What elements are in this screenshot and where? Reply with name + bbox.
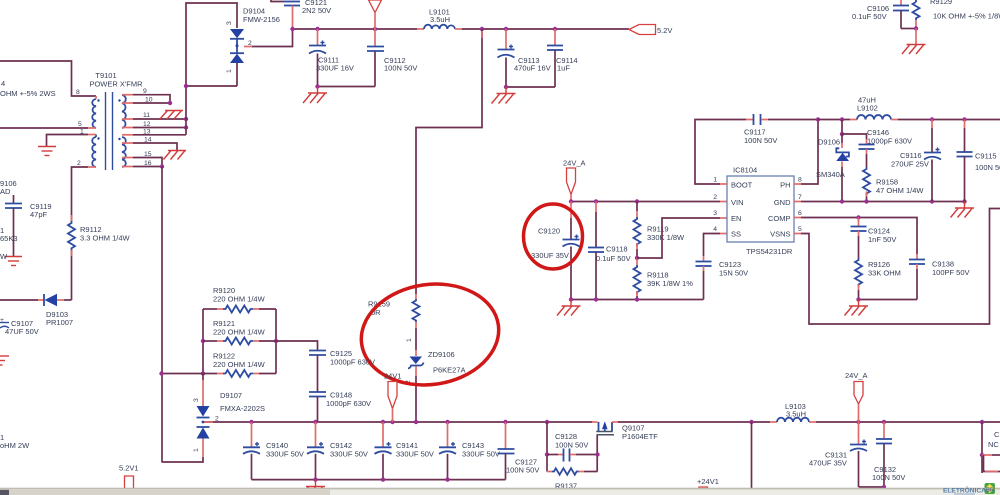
ground wire C9131/C9132 [859,486,885,488]
earth ground (cut, left edge) [0,355,9,357]
capacitor C9127 100N 50V [505,422,507,449]
GND rail from pin 7 [794,201,801,203]
24V bus to right edge [816,421,1000,423]
svg-text:100N 50: 100N 50 [975,163,1000,172]
top bus to right edge [898,119,1000,121]
wire pin 2 down to R9112 [72,167,89,221]
wire R9159 to ZD9106 [415,328,417,350]
svg-text:100N 50V: 100N 50V [872,473,905,482]
chassis ground at pin 14 [168,150,186,152]
wire pin 14 to chassis ground [122,142,133,144]
svg-text:3.3 OHM 1/4W: 3.3 OHM 1/4W [80,234,131,243]
svg-text:GND: GND [774,198,791,207]
svg-text:P1604ETF: P1604ETF [622,432,658,441]
svg-text:1000pF 630V: 1000pF 630V [867,137,912,146]
24V bus after Q9107 [618,421,770,423]
svg-text:330UF 50V: 330UF 50V [330,450,368,459]
svg-text:6: 6 [798,210,802,217]
svg-text:1nF 50V: 1nF 50V [868,235,896,244]
zener diode ZD9106 P6KE27A [410,357,423,365]
svg-text:3.5uH: 3.5uH [430,15,450,24]
svg-text:8: 8 [798,177,802,184]
power arrow connector (cut at top) [369,0,382,13]
svg-text:1: 1 [193,448,200,452]
wire ZD9106 to 24V bus [415,367,417,377]
resistor R9137 [547,471,552,473]
capacitor C9141 330UF 50V [382,422,384,447]
junction pins 9/10 [168,101,172,105]
svg-text:330K 1/8W: 330K 1/8W [647,233,685,242]
svg-text:VSNS: VSNS [770,230,790,239]
capacitor C9119 47pF [13,195,15,203]
Q9107 gate wire [596,435,598,472]
svg-text:SS: SS [731,230,741,239]
wire top-left input to transformer pin 8 [0,61,96,96]
resistor R9118 39K 1/8W 1% [635,256,639,260]
svg-text:100N 50V: 100N 50V [384,64,417,73]
red highlight circle around C9120 [524,204,583,269]
svg-text:39K 1/8W 1%: 39K 1/8W 1% [647,279,693,288]
transformer T9101 core [105,92,107,170]
svg-text:VIN: VIN [731,198,744,207]
svg-text:TPS54231DR: TPS54231DR [746,247,793,256]
capacitor C9128 100N 50V [547,454,558,456]
inductor L9102 47uH [850,119,857,121]
svg-text:2: 2 [77,160,81,167]
svg-text:47pF: 47pF [30,210,48,219]
wire R9112 to D9103 [71,250,73,300]
svg-text:1000pF 630V: 1000pF 630V [326,399,371,408]
svg-text:4: 4 [713,226,717,233]
svg-text:FMW-2156: FMW-2156 [243,15,280,24]
svg-text:D9106: D9106 [818,138,840,147]
capacitor C9116 270UF 25V [931,120,933,129]
capacitor C9120 330UF 35V [570,202,572,219]
svg-text:5: 5 [78,121,82,128]
capacitor C9132 100N 50V [883,422,885,439]
D9104 connection loop (pins 3 and 1 tied to secondary) [186,3,237,135]
wire D9104 pin 2 to 5.2V bus [244,46,252,48]
svg-text:BR: BR [986,488,994,494]
svg-text:C: C [994,430,1000,439]
svg-text:47UF 50V: 47UF 50V [5,327,39,336]
bottom grey toolbar [0,489,1000,495]
wire 5.2V node jog down to 24V protection branch [416,29,482,294]
svg-text:470UF 35V: 470UF 35V [809,459,847,468]
svg-text:1: 1 [713,177,717,184]
wires transformer pins 9,10 tied [122,94,133,96]
earth ground at transformer pin 1 [38,146,56,148]
capacitor C9118 0.1uF 50V [595,202,597,213]
SS wire and capacitor C9123 15N 50V [720,233,727,235]
Q9107 gate network: wire from bus down [546,422,548,472]
svg-text:IC8104: IC8104 [733,166,757,175]
snubber C9146 1000pF 630V [842,134,867,139]
EN net wire [637,218,720,258]
chassis ground below C9113 [505,87,507,94]
resistor R9120 220 OHM 1/4W [203,308,217,310]
svg-text:4: 4 [1,79,5,88]
svg-text:1000pF 630V: 1000pF 630V [330,358,375,367]
diode D9106 SM340A [841,120,843,135]
chassis ground below C9111 [317,87,319,94]
capacitor C9143 330UF 50V [447,422,449,447]
svg-text:P6KE27A: P6KE27A [433,366,466,375]
chassis ground below R9129 [915,29,917,45]
long wire pins 15/16 down to D9107 area [161,167,163,463]
ground wire C9113/C9114 [506,86,555,88]
capacitor C9106 0.1uF 50V (cut at top) [900,0,902,6]
svg-text:330UF 16V: 330UF 16V [316,64,354,73]
resistor R9159 0R [415,294,417,299]
svg-text:R9129: R9129 [930,0,952,6]
capacitor C9112 100N 50V [374,29,376,47]
svg-text:ELETRÔNICA: ELETRÔNICA [943,486,986,495]
svg-text:1: 1 [406,338,413,342]
resistor R9112 [68,221,75,250]
capacitor C9125 1000pF 630V [309,350,326,352]
resistor R9122 220 OHM 1/4W [162,373,218,375]
svg-text:W: W [0,252,8,261]
svg-text:D9107: D9107 [220,391,242,400]
capacitor C9111 330UF 16V [317,29,319,46]
inductor L9101 3.5uH [417,28,424,30]
capacitor C9138 100PF 50V [916,254,918,260]
svg-text:330UF 50V: 330UF 50V [396,450,434,459]
transformer T9101 secondary winding top (pins 9-12) [122,95,126,128]
5.2V bus after L9101 [462,28,629,30]
dual diode D9104 FMW-2156 [230,29,244,38]
PH net riser [794,183,801,185]
svg-text:24V_A: 24V_A [845,371,868,380]
svg-text:PH: PH [780,181,790,190]
svg-text:2: 2 [713,194,717,201]
svg-text:3.5uH: 3.5uH [786,410,806,419]
svg-text:0.1uF 50V: 0.1uF 50V [596,254,631,263]
svg-text:10K OHM +-5% 1/8W: 10K OHM +-5% 1/8W [933,12,1000,21]
svg-text:OHM +-5% 2WS: OHM +-5% 2WS [0,89,56,98]
svg-text:3: 3 [713,210,717,217]
right edge connector (cut) [981,422,983,473]
capacitor C9115 100N 50V [964,120,966,129]
svg-text:FMXA-2202S: FMXA-2202S [220,404,265,413]
5.2V output connector arrow [629,25,656,35]
svg-text:oHM 2W: oHM 2W [0,441,30,450]
svg-text:100PF 50V: 100PF 50V [932,268,970,277]
svg-text:COMP: COMP [768,214,791,223]
inductor L9103 3.5uH [770,421,777,423]
IC8104 TPS54231DR body [727,176,794,242]
capacitor C9148 1000pF 630V [309,391,326,393]
svg-text:C9120: C9120 [538,227,560,236]
svg-text:5.2V: 5.2V [657,26,672,35]
svg-text:NC: NC [988,440,999,449]
svg-text:220 OHM 1/4W: 220 OHM 1/4W [213,295,266,304]
svg-text:100N 50V: 100N 50V [744,136,777,145]
svg-text:24V_A: 24V_A [563,159,586,168]
svg-text:C9115: C9115 [975,152,997,161]
BOOT net: wire and capacitor C9117 100N 50V [720,183,727,185]
capacitor C9121 (cut at top) [271,0,284,2]
snubber resistor R9158 47 OHM 1/4W [863,167,870,196]
svg-text:47 OHM 1/4W: 47 OHM 1/4W [876,186,924,195]
svg-text:1uF: 1uF [557,64,570,73]
svg-text:220 OHM 1/4W: 220 OHM 1/4W [213,360,266,369]
svg-text:3: 3 [193,398,200,402]
svg-text:5: 5 [798,226,802,233]
wires transformer pins 15,16 tied [122,157,133,159]
svg-text:7: 7 [798,194,802,201]
svg-text:+24V1: +24V1 [697,477,719,486]
top 24V bus [818,119,850,121]
ground wire C9111/C9112 [318,86,376,88]
5.2V bus [293,28,418,30]
capacitor C9114 1uF [554,29,556,46]
svg-text:8: 8 [76,89,80,96]
resistor R9119 330K 1/8W [636,202,638,212]
svg-text:PR1007: PR1007 [46,318,73,327]
svg-text:L9102: L9102 [857,104,878,113]
chassis ground below rail (cut by bar) [315,480,317,487]
VIN rail [571,201,720,203]
svg-text:330UF 35V: 330UF 35V [531,251,569,260]
svg-text:15N 50V: 15N 50V [719,269,748,278]
VSNS net long wire [794,233,801,235]
wire pin 5 to left edge [0,127,88,129]
chassis ground on pin 11 wire [160,111,168,120]
ground rail C9124/R9126/C9138 [859,299,918,301]
svg-text:SM340A: SM340A [816,170,845,179]
svg-text:470uF 16V: 470uF 16V [514,64,551,73]
wire pin 1 to ground [47,135,89,147]
diode D9103 PR1007 [0,299,38,301]
capacitor C9124 1nF 50V [858,218,860,227]
wire network to C9125 [276,341,318,351]
MOSFET Q9107 P1604ETF [592,421,598,423]
svg-text:100N 50V: 100N 50V [506,466,539,475]
svg-text:0.1uF 50V: 0.1uF 50V [852,12,887,21]
svg-text:3: 3 [226,21,233,25]
svg-text:AD: AD [0,187,11,196]
wire pin 12 [122,127,133,129]
svg-text:220 OHM 1/4W: 220 OHM 1/4W [213,328,266,337]
svg-text:270UF 25V: 270UF 25V [891,160,929,169]
capacitor C9142 330UF 50V [315,422,317,447]
chassis ground below GND rail [964,202,966,209]
svg-text:5.2V1: 5.2V1 [119,464,139,473]
wire pin 11 [122,118,133,120]
ground rail below capacitor bank [252,479,506,481]
svg-text:24V1: 24V1 [384,372,402,381]
svg-text:1: 1 [226,69,233,73]
svg-text:POWER X'FMR: POWER X'FMR [89,80,143,89]
svg-text:2N2 50V: 2N2 50V [302,6,331,15]
svg-text:EN: EN [731,214,741,223]
svg-text:330UF 50V: 330UF 50V [462,450,500,459]
dual diode D9107 FMXA-2202S [202,374,204,381]
resistor network rails [202,309,204,374]
ground rail C9120/C9118/R9118 [571,299,704,301]
earth ground below C9119 [5,256,22,258]
svg-text:33K OHM: 33K OHM [868,269,901,278]
svg-text:11: 11 [143,112,150,119]
svg-text:ZD9106: ZD9106 [428,350,455,359]
resistor R9129 (cut at top) [915,0,917,2]
svg-text:C9118: C9118 [606,245,628,254]
wire pin 13 [122,134,133,136]
transformer T9101 secondary winding bottom (pins 13-16) [122,137,126,167]
resistor R9121 220 OHM 1/4W [203,340,217,342]
resistor R9126 33K OHM [855,258,862,287]
wire down at +24V1 tap [751,422,753,489]
svg-text:65K3: 65K3 [0,234,18,243]
24V main bus [203,421,592,423]
COMP net [794,217,801,219]
chassis ground below R9126 [858,300,860,307]
capacitor C9113 470uF 16V [505,29,507,50]
svg-text:100N 50V: 100N 50V [555,441,588,450]
transformer T9101 primary winding bottom (pins 1-2) [92,137,96,167]
red highlight circle around R9159/ZD9106 [355,275,506,393]
transformer T9101 primary winding top (pins 8-5) [92,99,96,128]
svg-text:330UF 50V: 330UF 50V [266,450,304,459]
svg-text:BOOT: BOOT [731,181,753,190]
capacitor C9131 470UF 35V [858,422,860,445]
capacitor C9140 330UF 50V [251,422,253,447]
chassis ground below C9120 [570,300,572,307]
